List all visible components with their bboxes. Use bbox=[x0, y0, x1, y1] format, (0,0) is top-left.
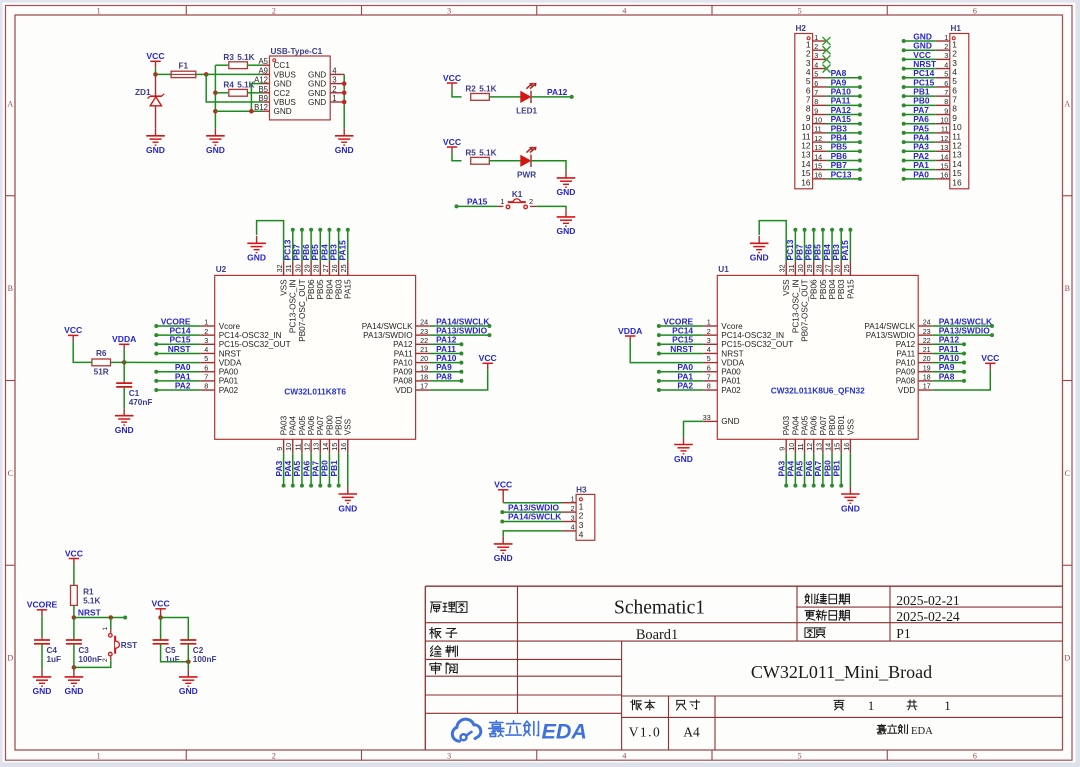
svg-text:VCC: VCC bbox=[494, 480, 512, 490]
svg-text:CW32L011_Mini_Broad: CW32L011_Mini_Broad bbox=[751, 662, 932, 682]
title block frame bbox=[425, 586, 1062, 750]
net label PA10 bbox=[831, 87, 852, 97]
svg-text:GND: GND bbox=[308, 89, 326, 98]
fuse F1 bbox=[171, 61, 196, 77]
svg-text:VBUS: VBUS bbox=[274, 98, 297, 107]
svg-text:16: 16 bbox=[842, 443, 851, 451]
ground bbox=[674, 437, 693, 464]
no-connect bbox=[823, 55, 831, 63]
svg-text:2025-02-21: 2025-02-21 bbox=[896, 593, 959, 608]
svg-text:PA04: PA04 bbox=[791, 415, 800, 435]
svg-text:A5: A5 bbox=[258, 57, 268, 66]
wire bbox=[206, 74, 262, 102]
wire bbox=[827, 131, 862, 135]
svg-text:16: 16 bbox=[952, 177, 962, 187]
wire bbox=[343, 74, 345, 128]
svg-text:5.1K: 5.1K bbox=[237, 53, 254, 62]
wire bbox=[827, 177, 862, 181]
no-connect bbox=[823, 65, 831, 73]
wire bbox=[337, 228, 341, 262]
LED LED1 bbox=[516, 83, 537, 116]
svg-text:NRST: NRST bbox=[219, 349, 241, 358]
svg-text:31: 31 bbox=[284, 264, 293, 272]
svg-text:14: 14 bbox=[940, 152, 948, 161]
net label PC13 bbox=[831, 169, 852, 179]
wire bbox=[430, 361, 464, 365]
svg-text:PA08: PA08 bbox=[393, 377, 413, 386]
wire bbox=[430, 342, 464, 346]
junction bbox=[158, 615, 163, 620]
wire bbox=[154, 333, 200, 337]
resistor R2 bbox=[465, 85, 496, 101]
ground bbox=[247, 236, 266, 263]
wire bbox=[452, 90, 462, 97]
svg-text:PA15: PA15 bbox=[840, 240, 850, 261]
net label PA14/SWCLK bbox=[508, 512, 561, 522]
net label PA5 bbox=[292, 460, 302, 476]
svg-text:C2: C2 bbox=[193, 646, 204, 655]
wire bbox=[123, 387, 125, 408]
junction bbox=[342, 81, 347, 86]
svg-text:1: 1 bbox=[944, 698, 951, 713]
svg-text:16: 16 bbox=[814, 171, 822, 180]
svg-text:PA0: PA0 bbox=[913, 169, 929, 179]
net label PC14 bbox=[170, 326, 191, 336]
capacitor C5 bbox=[160, 618, 162, 641]
power flag VCC bbox=[152, 599, 170, 618]
power flag VCC bbox=[443, 73, 461, 90]
svg-text:P1: P1 bbox=[896, 626, 910, 641]
svg-text:PA10: PA10 bbox=[393, 358, 413, 367]
svg-text:11: 11 bbox=[814, 125, 821, 134]
svg-text:3: 3 bbox=[447, 752, 451, 761]
zener diode ZD1 bbox=[135, 74, 164, 128]
svg-text:GND: GND bbox=[179, 686, 198, 696]
wire bbox=[154, 388, 200, 392]
svg-text:VDD: VDD bbox=[395, 386, 412, 395]
wire bbox=[902, 158, 936, 162]
svg-text:1: 1 bbox=[944, 33, 948, 42]
wire bbox=[827, 140, 862, 144]
wire bbox=[327, 228, 331, 262]
wire bbox=[803, 228, 807, 262]
wire bbox=[309, 228, 313, 262]
net label PC15 bbox=[170, 335, 191, 345]
svg-text:15: 15 bbox=[814, 161, 822, 170]
svg-text:18: 18 bbox=[420, 373, 428, 382]
wire bbox=[154, 342, 200, 346]
svg-text:Vcore: Vcore bbox=[219, 322, 241, 331]
svg-text:VDD: VDD bbox=[898, 386, 915, 395]
svg-text:U2: U2 bbox=[216, 265, 227, 274]
svg-text:9: 9 bbox=[778, 447, 787, 451]
svg-text:3: 3 bbox=[707, 336, 711, 345]
net label PB0 bbox=[320, 460, 330, 477]
svg-text:R1: R1 bbox=[83, 587, 94, 596]
wire bbox=[932, 361, 966, 365]
net label PA14/SWCLK bbox=[436, 316, 489, 326]
net label PA10 bbox=[939, 353, 960, 363]
svg-text:5: 5 bbox=[944, 70, 948, 79]
svg-text:1: 1 bbox=[500, 197, 504, 206]
svg-text:PA01: PA01 bbox=[219, 377, 239, 386]
net label PA13/SWDIO bbox=[939, 326, 991, 336]
net label PB4 bbox=[319, 244, 329, 261]
svg-text:GND: GND bbox=[206, 145, 225, 155]
svg-text:R6: R6 bbox=[96, 349, 107, 358]
wire bbox=[161, 618, 189, 641]
power flag VCC bbox=[65, 548, 83, 565]
svg-text:3: 3 bbox=[944, 51, 948, 60]
svg-text:2: 2 bbox=[814, 42, 818, 51]
net label PA9 bbox=[831, 77, 847, 87]
svg-text:PA8: PA8 bbox=[436, 371, 452, 381]
svg-text:5.1K: 5.1K bbox=[83, 596, 100, 605]
wire bbox=[455, 204, 498, 208]
svg-text:1: 1 bbox=[571, 495, 575, 504]
wire bbox=[827, 85, 862, 89]
net label PB6 bbox=[301, 244, 311, 261]
svg-text:C5: C5 bbox=[165, 646, 176, 655]
svg-text:PC13-OSC_IN: PC13-OSC_IN bbox=[289, 279, 298, 333]
svg-text:VCC: VCC bbox=[65, 548, 83, 558]
wire bbox=[821, 453, 825, 487]
ground bbox=[338, 487, 357, 514]
svg-text:PA11: PA11 bbox=[394, 349, 413, 358]
wire bbox=[657, 333, 703, 337]
svg-text:A4: A4 bbox=[683, 725, 700, 740]
net label PB6 bbox=[804, 244, 814, 261]
svg-text:F1: F1 bbox=[179, 61, 189, 70]
wire bbox=[827, 76, 862, 80]
svg-text:14: 14 bbox=[321, 443, 330, 451]
junction bbox=[204, 72, 209, 77]
net label NRST bbox=[78, 608, 102, 618]
svg-text:28: 28 bbox=[814, 264, 823, 272]
net label PC13 bbox=[785, 239, 795, 260]
net label PB3 bbox=[328, 244, 338, 261]
wire bbox=[41, 616, 43, 636]
wire bbox=[430, 324, 492, 328]
svg-text:GND: GND bbox=[674, 454, 693, 464]
svg-text:4: 4 bbox=[944, 60, 948, 69]
svg-text:B: B bbox=[8, 284, 13, 293]
svg-text:23: 23 bbox=[420, 327, 428, 336]
wire bbox=[500, 520, 562, 524]
net label PA3 bbox=[776, 460, 786, 476]
net label PA11 bbox=[436, 344, 456, 354]
svg-text:12: 12 bbox=[303, 443, 312, 451]
svg-text:14: 14 bbox=[814, 152, 822, 161]
svg-text:2: 2 bbox=[529, 197, 533, 206]
net label PB5 bbox=[813, 244, 823, 261]
svg-text:4: 4 bbox=[332, 66, 337, 75]
capacitor C3 bbox=[73, 618, 75, 641]
wire bbox=[827, 94, 862, 98]
svg-text:C3: C3 bbox=[78, 646, 89, 655]
wire bbox=[657, 351, 703, 355]
net label PA9 bbox=[436, 362, 452, 372]
net label PC15 bbox=[913, 77, 934, 87]
svg-text:3: 3 bbox=[571, 513, 575, 522]
ground bbox=[750, 236, 769, 263]
svg-text:10: 10 bbox=[787, 443, 796, 451]
svg-text:2: 2 bbox=[332, 85, 336, 94]
svg-text:22: 22 bbox=[420, 336, 428, 345]
net label PA7 bbox=[813, 460, 823, 476]
wire bbox=[318, 228, 322, 262]
svg-text:PB07-OSC_OUT: PB07-OSC_OUT bbox=[298, 279, 307, 341]
svg-text:3: 3 bbox=[204, 336, 208, 345]
wire bbox=[902, 76, 936, 80]
net label PB7 bbox=[794, 244, 804, 261]
svg-text:13: 13 bbox=[940, 143, 948, 152]
net label PA9 bbox=[939, 362, 955, 372]
svg-text:28: 28 bbox=[312, 264, 321, 272]
net label PA7 bbox=[310, 460, 320, 476]
svg-text:1uF: 1uF bbox=[165, 655, 180, 664]
capacitor C2 bbox=[180, 640, 216, 664]
svg-text:5: 5 bbox=[814, 70, 818, 79]
svg-text:PB03: PB03 bbox=[837, 279, 846, 299]
net label NRST bbox=[670, 344, 694, 354]
wire bbox=[154, 351, 200, 355]
net label PA8 bbox=[831, 68, 847, 78]
power flag VCC bbox=[479, 353, 497, 370]
svg-text:PA08: PA08 bbox=[896, 377, 916, 386]
svg-text:21: 21 bbox=[420, 345, 428, 354]
svg-text:9: 9 bbox=[814, 106, 818, 115]
header H3 bbox=[562, 485, 595, 540]
svg-text:PB03: PB03 bbox=[335, 279, 344, 299]
svg-text:NRST: NRST bbox=[721, 349, 743, 358]
wire bbox=[902, 103, 936, 107]
wire bbox=[902, 149, 936, 153]
wire bbox=[196, 73, 206, 75]
wire bbox=[657, 370, 703, 374]
wire bbox=[247, 92, 262, 94]
svg-text:VDDA: VDDA bbox=[721, 358, 744, 367]
wire bbox=[215, 64, 228, 66]
wire bbox=[73, 342, 92, 363]
svg-text:26: 26 bbox=[330, 264, 339, 272]
svg-text:100nF: 100nF bbox=[193, 655, 217, 664]
svg-text:4: 4 bbox=[571, 523, 575, 532]
svg-text:VCC: VCC bbox=[146, 51, 164, 61]
IC U2 CW32L011K8T6 bbox=[201, 261, 430, 453]
capacitor C4 bbox=[41, 637, 43, 641]
net label PA14/SWCLK bbox=[939, 316, 992, 326]
svg-text:GND: GND bbox=[146, 145, 165, 155]
svg-text:30: 30 bbox=[293, 264, 302, 272]
svg-text:16: 16 bbox=[801, 177, 811, 187]
svg-text:PA00: PA00 bbox=[721, 368, 741, 377]
net label PA12 bbox=[831, 105, 852, 115]
svg-text:C1: C1 bbox=[129, 389, 140, 398]
svg-text:PA12: PA12 bbox=[393, 340, 413, 349]
svg-text:8: 8 bbox=[944, 97, 948, 106]
svg-text:VDDA: VDDA bbox=[112, 334, 136, 344]
svg-text:6: 6 bbox=[973, 752, 977, 761]
svg-text:12: 12 bbox=[814, 134, 822, 143]
wire bbox=[282, 453, 286, 487]
net label PB5 bbox=[310, 244, 320, 261]
net label PA13/SWDIO bbox=[436, 326, 488, 336]
svg-text:15: 15 bbox=[833, 443, 842, 451]
net label PC13 bbox=[283, 239, 293, 260]
wire bbox=[73, 644, 75, 670]
svg-text:5: 5 bbox=[707, 354, 711, 363]
wire bbox=[827, 158, 862, 162]
power flag VCC bbox=[981, 353, 999, 370]
svg-text:PA05: PA05 bbox=[800, 415, 809, 435]
svg-text:CC2: CC2 bbox=[274, 89, 291, 98]
ground bbox=[115, 408, 134, 435]
wire bbox=[902, 140, 936, 144]
svg-text:PB01: PB01 bbox=[837, 415, 846, 435]
wire bbox=[300, 453, 304, 487]
header H2 bbox=[795, 24, 827, 189]
wire bbox=[848, 228, 852, 262]
svg-text:1: 1 bbox=[814, 33, 818, 42]
svg-text:GND: GND bbox=[274, 107, 292, 116]
net label VCORE bbox=[663, 316, 693, 326]
ground bbox=[206, 128, 225, 155]
wire bbox=[111, 361, 125, 363]
wire bbox=[830, 228, 834, 262]
svg-text:20: 20 bbox=[923, 354, 931, 363]
net label NRST bbox=[913, 59, 937, 69]
net label PA8 bbox=[939, 371, 955, 381]
svg-text:NRST: NRST bbox=[670, 344, 694, 354]
svg-text:PB1: PB1 bbox=[329, 460, 339, 477]
wire bbox=[155, 68, 157, 75]
wire bbox=[156, 73, 172, 75]
svg-text:C: C bbox=[8, 469, 13, 478]
svg-text:1: 1 bbox=[97, 6, 101, 15]
svg-text:H3: H3 bbox=[576, 485, 587, 494]
svg-text:6: 6 bbox=[707, 363, 711, 372]
wire bbox=[154, 379, 200, 383]
wire bbox=[657, 324, 703, 328]
svg-text:19: 19 bbox=[923, 363, 931, 372]
svg-text:21: 21 bbox=[923, 345, 931, 354]
net label PA6 bbox=[913, 114, 929, 124]
wire bbox=[247, 64, 262, 66]
svg-text:GND: GND bbox=[308, 98, 326, 107]
svg-text:PA13/SWDIO: PA13/SWDIO bbox=[866, 331, 915, 340]
resistor R1 bbox=[71, 585, 101, 605]
svg-text:24: 24 bbox=[923, 318, 931, 327]
svg-text:VCORE: VCORE bbox=[27, 600, 58, 610]
svg-text:32: 32 bbox=[778, 264, 787, 272]
svg-text:D: D bbox=[1064, 654, 1070, 663]
svg-text:PA14/SWCLK: PA14/SWCLK bbox=[508, 512, 561, 522]
svg-text:25: 25 bbox=[842, 264, 851, 272]
svg-text:VSS: VSS bbox=[280, 279, 289, 296]
net label PB0 bbox=[822, 460, 832, 477]
wire bbox=[839, 453, 843, 487]
svg-text:LED1: LED1 bbox=[516, 106, 537, 115]
svg-text:8: 8 bbox=[707, 382, 711, 391]
svg-text:PA14/SWCLK: PA14/SWCLK bbox=[864, 322, 915, 331]
svg-text:12: 12 bbox=[805, 443, 814, 451]
resistor R5 bbox=[465, 148, 496, 164]
svg-text:PA15: PA15 bbox=[846, 279, 855, 299]
svg-text:20: 20 bbox=[420, 354, 428, 363]
wire bbox=[347, 453, 349, 486]
wire bbox=[902, 131, 936, 135]
wire bbox=[839, 228, 843, 262]
wire bbox=[759, 221, 786, 262]
svg-text:PC15-OSC32_OUT: PC15-OSC32_OUT bbox=[721, 340, 793, 349]
junction bbox=[109, 615, 114, 620]
net label PA0 bbox=[913, 169, 929, 179]
wire bbox=[346, 228, 350, 262]
wire bbox=[337, 453, 341, 487]
wire bbox=[123, 349, 125, 362]
svg-text:PA04: PA04 bbox=[289, 415, 298, 435]
power flag VDDA bbox=[112, 334, 136, 349]
power flag VCC bbox=[494, 480, 512, 503]
wire bbox=[902, 177, 936, 181]
svg-text:4: 4 bbox=[204, 345, 208, 354]
logo JLC EDA bbox=[452, 719, 587, 743]
wire bbox=[318, 453, 322, 487]
svg-text:19: 19 bbox=[420, 363, 428, 372]
svg-text:27: 27 bbox=[321, 264, 330, 272]
svg-text:2: 2 bbox=[571, 504, 575, 513]
svg-text:VSS: VSS bbox=[344, 418, 353, 435]
svg-text:PA06: PA06 bbox=[810, 415, 819, 435]
wire bbox=[902, 48, 936, 52]
svg-text:7: 7 bbox=[204, 373, 208, 382]
connector USB-Type-C1 bbox=[254, 47, 344, 120]
net label PB3 bbox=[831, 244, 841, 261]
svg-text:1: 1 bbox=[868, 698, 875, 713]
ground bbox=[335, 128, 354, 155]
svg-text:VCC: VCC bbox=[443, 137, 461, 147]
svg-text:EDA: EDA bbox=[542, 720, 587, 744]
svg-text:2: 2 bbox=[944, 42, 948, 51]
wire bbox=[812, 228, 816, 262]
net label PA11 bbox=[939, 344, 959, 354]
wire bbox=[827, 122, 862, 126]
net label PA6 bbox=[301, 460, 311, 476]
resistor R4 bbox=[223, 81, 254, 97]
net label PB7 bbox=[831, 160, 848, 170]
net label PA2 bbox=[175, 380, 191, 390]
svg-text:6: 6 bbox=[204, 363, 208, 372]
wire bbox=[932, 370, 990, 390]
wire bbox=[154, 324, 200, 328]
net label GND bbox=[913, 31, 932, 41]
wire bbox=[110, 618, 112, 630]
svg-text:PB06: PB06 bbox=[307, 279, 316, 299]
net label PA4 bbox=[283, 460, 293, 476]
junction bbox=[153, 72, 158, 77]
wire bbox=[452, 154, 462, 161]
svg-text:CW32L011K8U6_QFN32: CW32L011K8U6_QFN32 bbox=[771, 386, 865, 396]
svg-text:6: 6 bbox=[973, 6, 977, 15]
svg-text:29: 29 bbox=[303, 264, 312, 272]
junction bbox=[213, 109, 218, 114]
net label PA7 bbox=[913, 105, 929, 115]
resistor R6 bbox=[92, 349, 111, 366]
junction bbox=[342, 91, 347, 96]
svg-text:29: 29 bbox=[805, 264, 814, 272]
wire bbox=[161, 644, 189, 662]
